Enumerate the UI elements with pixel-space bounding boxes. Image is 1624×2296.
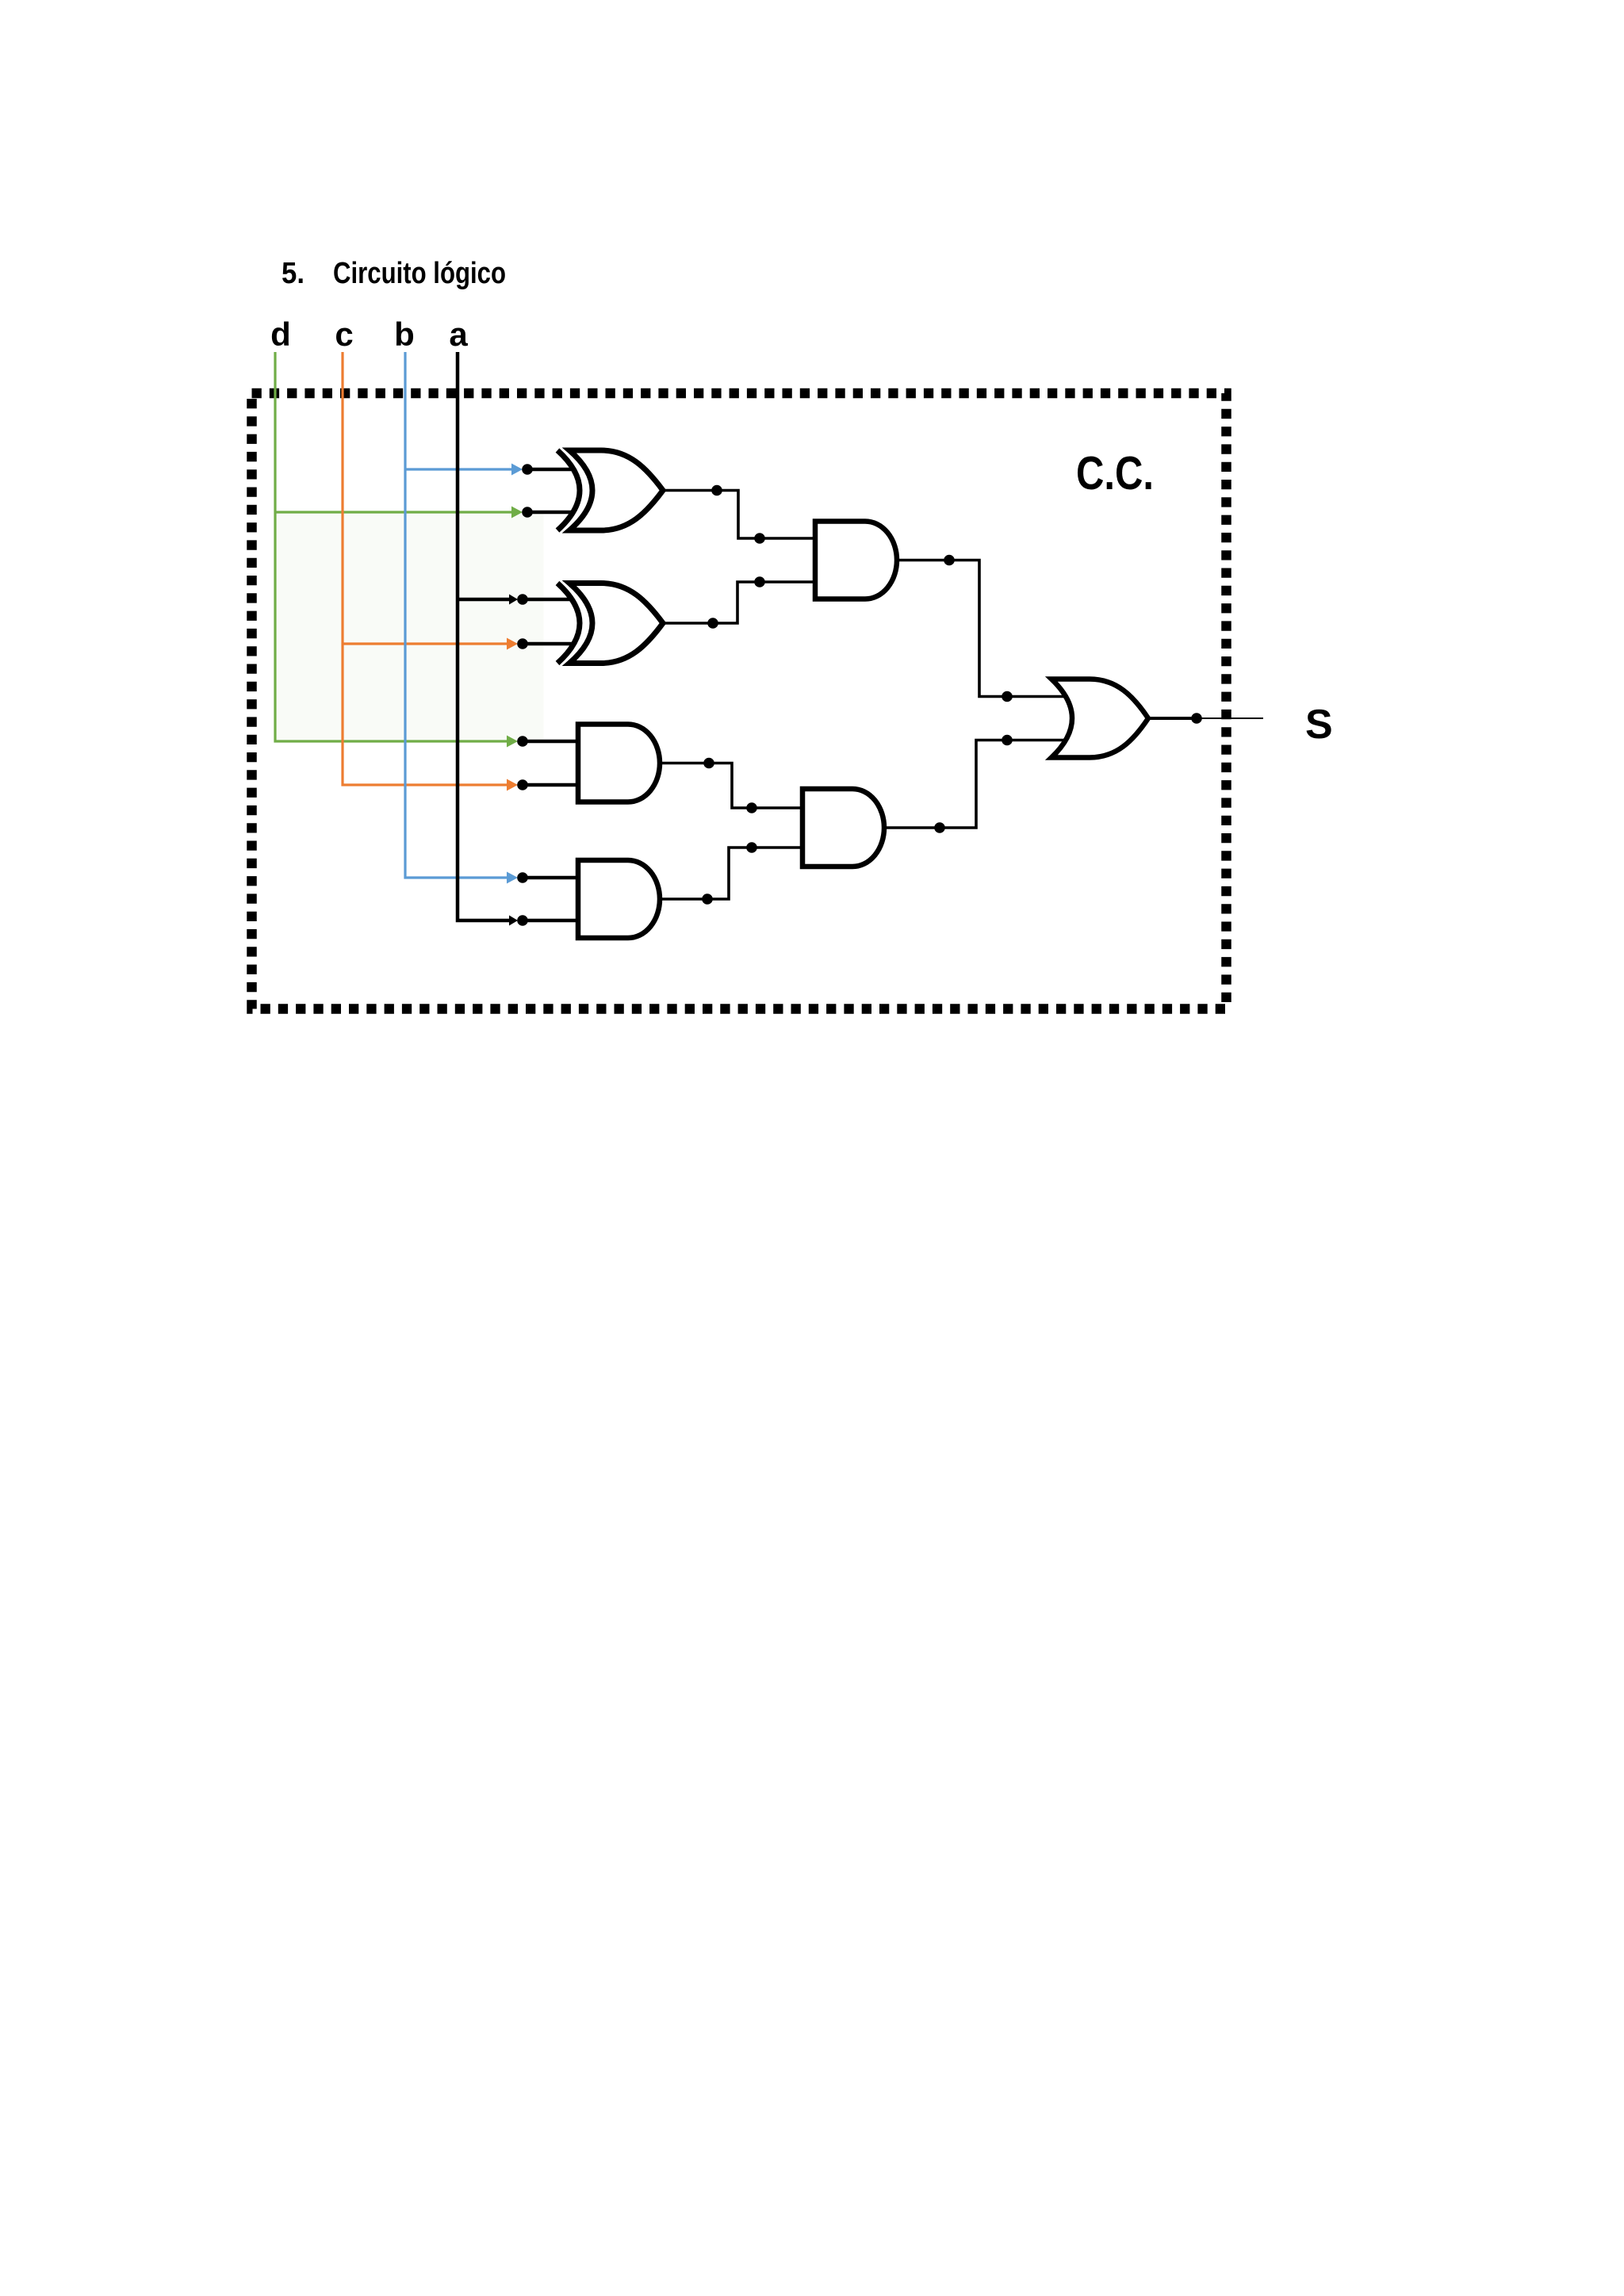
wire b (blue vertical + elbow to U4 upper input) <box>405 352 508 878</box>
svg-text:S: S <box>1305 702 1333 748</box>
and gate U4 <box>578 860 660 938</box>
junction dot U2 output <box>707 618 718 629</box>
title <box>282 257 506 290</box>
wire b branch to XOR U1 upper input <box>405 468 513 470</box>
junction dot U7 output <box>1191 713 1202 724</box>
junction dot U4 pin1 <box>517 872 528 883</box>
junction dot U7 pin2 <box>1002 735 1013 746</box>
svg-text:Circuito lógico: Circuito lógico <box>333 257 506 290</box>
and gate U5 <box>815 522 897 599</box>
input stub U1 pin1 <box>523 468 573 472</box>
wire AND U4 output to AND U6 pin2 <box>660 848 806 899</box>
wire OR U7 output to S <box>1148 717 1197 720</box>
junction dot U3 pin2 <box>517 779 528 790</box>
arrowhead c into U3 <box>507 779 518 791</box>
svg-text:d: d <box>270 316 291 353</box>
wire c (orange vertical + elbow to U3 lower input) <box>343 352 508 785</box>
or gate U7 <box>1051 679 1148 758</box>
C.C. boundary box (dashed) <box>252 393 1227 1009</box>
input stub U2 pin1 <box>523 598 573 602</box>
and gate U6 <box>802 789 884 867</box>
junction dot U3 output <box>703 758 714 769</box>
highlight region between d-wire branches (pale green) <box>277 514 544 740</box>
wire d (green vertical + elbow to U3 upper input) <box>275 352 508 741</box>
input stub U4 pin1 <box>523 876 583 880</box>
input stub U2 pin2 <box>523 642 573 646</box>
junction dot U5 pin2 <box>754 576 765 587</box>
wire c branch to XOR U2 lower input <box>343 642 508 645</box>
junction dot U6 pin1 <box>746 802 757 813</box>
arrowhead d into U3 <box>507 736 518 748</box>
junction dot U5 pin1 <box>754 533 765 544</box>
wire AND U5 output to OR U7 pin1 <box>897 561 1065 697</box>
wire XOR U1 output to AND U5 pin1 <box>663 491 818 539</box>
wire a branch to XOR U2 upper input <box>458 598 511 602</box>
wire AND U3 output to AND U6 pin1 <box>660 763 806 809</box>
arrowhead a into U4 <box>509 916 518 926</box>
input stub U4 pin2 <box>523 919 583 923</box>
junction dot U1 pin2 <box>522 507 533 518</box>
and gate U3 <box>578 725 660 802</box>
input stub U3 pin1 <box>523 740 583 744</box>
svg-text:5.: 5. <box>282 257 304 290</box>
junction dot U2 pin1 <box>517 594 528 605</box>
svg-text:C.C.: C.C. <box>1076 447 1154 499</box>
arrowhead c into U2 <box>507 638 518 650</box>
xor gate U2 <box>557 584 663 664</box>
junction dot U6 output <box>934 822 945 833</box>
junction dot U6 pin2 <box>746 842 757 853</box>
junction dot U2 pin2 <box>517 638 528 649</box>
junction dot U1 pin1 <box>522 464 533 475</box>
junction dot U4 output <box>702 894 713 905</box>
junction dot U5 output <box>944 555 955 566</box>
arrowhead d into U1 <box>511 507 523 519</box>
junction dot U3 pin1 <box>517 736 528 747</box>
wire XOR U2 output to AND U5 pin2 <box>663 582 818 623</box>
svg-text:a: a <box>449 316 468 353</box>
wire d branch to XOR U1 lower input <box>275 511 513 513</box>
junction dot U4 pin2 <box>517 915 528 926</box>
wire a (black vertical + elbow to U4 lower input) <box>458 352 511 920</box>
arrowhead b into U1 <box>511 464 523 476</box>
junction dot U1 output <box>711 485 722 496</box>
junction dot U7 pin1 <box>1002 691 1013 702</box>
xor gate U1 <box>557 450 663 530</box>
input stub U3 pin2 <box>523 783 583 787</box>
arrowhead b into U4 <box>507 872 518 884</box>
arrowhead a into U2 <box>509 595 518 605</box>
input stub U1 pin2 <box>523 511 573 515</box>
svg-text:b: b <box>394 316 415 353</box>
wire AND U6 output to OR U7 pin2 <box>884 740 1065 828</box>
svg-text:c: c <box>335 316 353 353</box>
